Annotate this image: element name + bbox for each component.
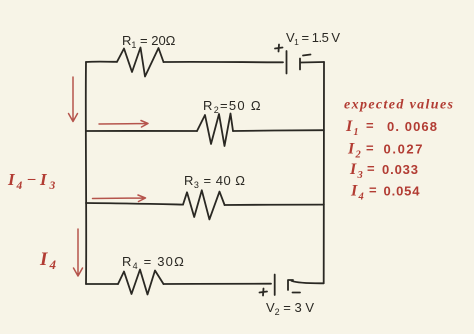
wire: left vertical rail (85, 62, 87, 284)
wire: rail 3 right segment (225, 204, 324, 206)
svg-text:expected values: expected values (344, 98, 454, 113)
battery V2 positive plate (274, 275, 276, 296)
wire: rail 3 left segment (86, 203, 183, 205)
red current arrow right on rail 3 (93, 195, 146, 202)
battery V1 positive plate (286, 51, 288, 74)
svg-text:R2=50 Ω: R2=50 Ω (203, 98, 262, 115)
battery V1 plus sign (275, 45, 283, 52)
wire: rail 2 left segment (86, 130, 197, 132)
wire: top rail right segment to battery (164, 61, 284, 63)
red current arrow down (bottom left, I4 branch) (74, 229, 83, 276)
svg-text:V1 = 1.5 V: V1 = 1.5 V (286, 30, 340, 47)
wire: bottom rail from V2 to right corner (292, 281, 324, 284)
wire: top rail from V1 to right corner (301, 61, 324, 64)
wire: bottom rail to battery V2 (164, 283, 272, 285)
red current arrow down (top left, I4-I3 branch) (69, 77, 78, 122)
red current arrow right on rail 2 (99, 121, 148, 128)
svg-text:R1 = 20Ω: R1 = 20Ω (122, 33, 176, 50)
battery V2 negative plate (288, 280, 293, 290)
wire: bottom rail left segment (86, 283, 118, 285)
svg-text:R4 = 30Ω: R4 = 30Ω (122, 254, 185, 271)
resistor R3 (183, 190, 225, 219)
battery V1 minus sign (303, 55, 311, 56)
resistor R1 (117, 48, 164, 77)
wire: top rail left segment (86, 61, 117, 63)
resistor R4 (118, 270, 164, 295)
resistor R2 (197, 114, 233, 147)
battery V1 negative plate (299, 59, 301, 70)
battery V2 plus sign (260, 289, 268, 296)
svg-text:V2 = 3 V: V2 = 3 V (266, 300, 314, 317)
wire: right vertical rail (323, 62, 326, 283)
battery V2 minus sign (293, 292, 301, 294)
svg-text:R3 = 40 Ω: R3 = 40 Ω (184, 173, 246, 190)
wire: rail 2 right segment (233, 129, 324, 132)
